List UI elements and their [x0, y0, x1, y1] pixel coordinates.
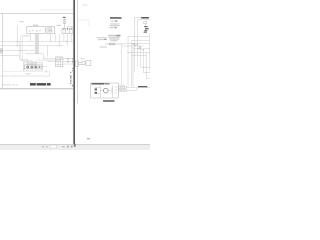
relay box B — [47, 27, 55, 34]
legend title — [110, 17, 122, 19]
motor bottom label — [103, 100, 115, 102]
big assembly box F — [134, 18, 150, 46]
wire under label H — [133, 86, 150, 88]
right page wire verticals — [122, 33, 150, 87]
wire horizontal y55.3 — [0, 54, 19, 56]
wire vertical x47.5 — [47, 46, 49, 57]
wire horizontal y76 — [0, 71, 50, 76]
status bar — [0, 145, 150, 151]
fuse M5 — [63, 18, 65, 28]
right page junction dots — [128, 43, 144, 53]
wire right of lamp assembly — [41, 67, 46, 73]
label near connector — [57, 25, 62, 26]
motor internal wires — [95, 85, 117, 98]
wire horizontal y53.8 — [25, 53, 43, 55]
wire verticals down to lamp assembly — [19, 35, 22, 61]
wires into fuse block E — [37, 59, 56, 62]
faint header text right page — [82, 5, 88, 6]
wire horizontal y45.8 — [0, 45, 64, 47]
lamp assembly outer box — [23, 63, 42, 71]
wire corners into lamp assembly — [19, 59, 36, 61]
lamp assembly footer text — [26, 73, 31, 74]
assembly F label — [141, 17, 149, 19]
legend rows — [109, 21, 119, 29]
ignition switch box S1 — [27, 27, 45, 34]
rotated note Front of Vehicle — [70, 72, 73, 87]
lamp L3 — [35, 66, 37, 68]
text above connector chain — [80, 58, 85, 59]
wire from relay B down — [49, 34, 51, 42]
left page bottom border — [0, 88, 74, 90]
switch contacts in S1 — [29, 30, 41, 31]
status bar controls — [42, 146, 65, 148]
lamp L1 — [27, 66, 29, 68]
right page wire horizontals — [122, 36, 150, 78]
connector C3 pins — [63, 29, 71, 30]
wires from motor connectors — [126, 87, 137, 90]
edge connector P2 right page — [75, 60, 91, 66]
connector C3 (3 pins) — [62, 28, 73, 33]
left page faint upper edge — [40, 9, 74, 11]
edge connector P1 — [0, 49, 2, 54]
wire labels mid — [96, 37, 107, 47]
connectors right of motor box — [119, 86, 126, 91]
page input field — [50, 145, 56, 148]
wire bus band below S1 — [35, 33, 39, 53]
wire vertical x30.4 below S1 — [29, 33, 31, 41]
inline connector marks — [67, 58, 68, 63]
wire verticals mid — [56, 34, 59, 46]
schematic title left page — [30, 83, 51, 85]
window divider — [74, 0, 76, 144]
wires below connector C3 — [64, 33, 71, 46]
ignition switch label — [33, 25, 38, 26]
switch symbols right page — [135, 44, 141, 48]
divider foot — [74, 144, 76, 147]
page number 1/5 — [87, 138, 90, 140]
legend symbol marks — [115, 20, 118, 21]
lamp strip — [24, 65, 41, 69]
right page left border — [77, 0, 79, 104]
fuse row F10 — [105, 43, 122, 45]
wire corners left of bus — [21, 35, 31, 36]
fuse M5 label — [63, 17, 66, 18]
node label text — [20, 21, 24, 22]
junction dots — [17, 41, 68, 51]
motor assembly box G — [91, 83, 119, 98]
edge connector P1 pins — [0, 49, 3, 52]
fuse block E — [56, 57, 63, 67]
wire vertical x17.2 — [16, 25, 18, 46]
toolbar icons — [67, 146, 73, 148]
motor assembly title — [92, 83, 105, 84]
right page inner corner wire — [78, 20, 89, 26]
text above motor connectors — [119, 84, 125, 87]
wires from fuse block E to divider — [63, 59, 74, 64]
wire horizontal y50.3 — [0, 49, 37, 51]
motor connector pins — [120, 87, 125, 91]
lamp L2 — [31, 66, 33, 68]
wire horizontal y71.2 — [3, 70, 24, 72]
assembly F internal component — [144, 22, 147, 27]
terminal nubs on divider — [72, 58, 74, 71]
note text block — [108, 35, 121, 42]
diode symbols — [95, 88, 97, 93]
ground label H — [138, 86, 147, 87]
wire stubs above lamps — [28, 59, 36, 65]
wire vertical x43.3 — [42, 54, 44, 59]
motor M — [103, 88, 108, 93]
wire horizontal bus y41.3 — [0, 40, 74, 42]
fuse block E pins — [56, 58, 62, 61]
lamp cross marks — [27, 66, 37, 68]
wire from connector C3 up to rail — [68, 26, 74, 28]
left page left border — [2, 14, 4, 89]
left page top border — [0, 13, 74, 15]
assembly F dark cluster — [144, 26, 149, 33]
footer faint text — [2, 84, 6, 85]
lamp terminal tick — [39, 66, 40, 68]
lamp strip label — [27, 63, 37, 64]
